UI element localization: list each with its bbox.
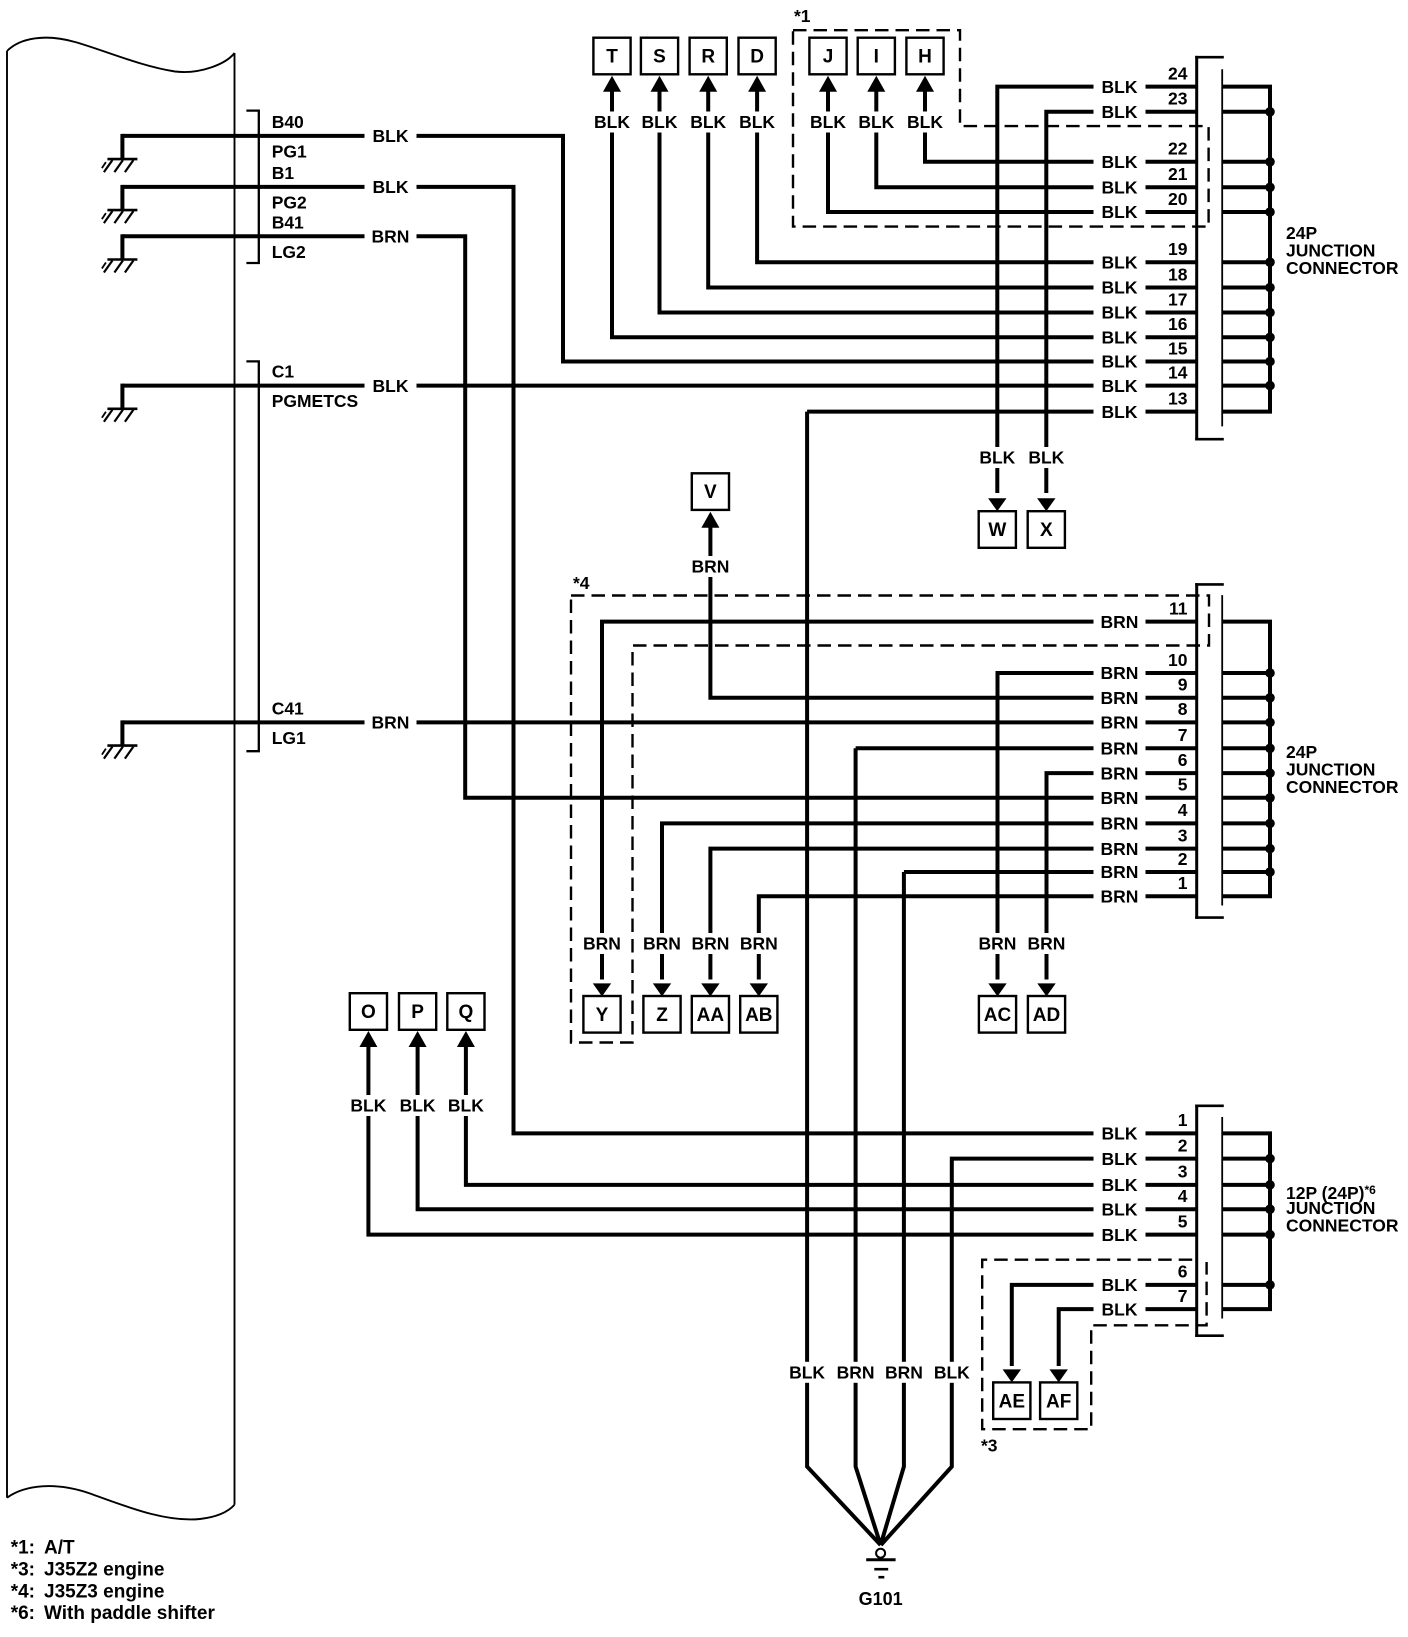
svg-text:BLK: BLK (1102, 376, 1138, 396)
svg-text:BLK: BLK (1102, 77, 1138, 97)
svg-text:23: 23 (1168, 89, 1188, 109)
svg-text:BRN: BRN (372, 713, 410, 733)
svg-text:BLK: BLK (1102, 352, 1138, 372)
wire J BLK to junction (802, 76, 1198, 212)
ground stub C41 (102, 720, 236, 758)
wire H BLK to junction (899, 76, 1198, 162)
svg-text:BLK: BLK (1028, 448, 1064, 468)
wire G101 drop 2 BRN (830, 748, 882, 1545)
svg-text:BRN: BRN (1101, 713, 1139, 733)
ground stub B1 (102, 185, 236, 223)
svg-text:Y: Y (596, 1005, 609, 1026)
svg-text:J35Z2 engine: J35Z2 engine (44, 1560, 164, 1581)
svg-text:BLK: BLK (690, 112, 726, 132)
wire X BLK from pin 23 (1020, 112, 1198, 511)
svg-text:A/T: A/T (44, 1538, 75, 1559)
svg-text:18: 18 (1168, 264, 1188, 284)
svg-text:20: 20 (1168, 189, 1188, 209)
wire R BLK to junction (682, 76, 1198, 288)
connector box S (641, 38, 678, 75)
connector box V (692, 473, 729, 510)
svg-text:LG2: LG2 (272, 242, 306, 262)
svg-text:H: H (918, 47, 932, 68)
dashed option box *4 (J35Z3) (571, 573, 1209, 1043)
svg-text:*4: *4 (573, 573, 590, 593)
svg-text:BLK: BLK (907, 112, 943, 132)
connector box J (809, 38, 846, 75)
svg-text:I: I (874, 47, 879, 68)
svg-text:BLK: BLK (1102, 1175, 1138, 1195)
svg-text:D: D (750, 47, 764, 68)
wire pin7 BRN (856, 746, 1198, 750)
svg-text:BRN: BRN (643, 934, 681, 954)
connector box W (979, 511, 1016, 548)
wire V BRN from pin 9 (684, 512, 1198, 698)
svg-text:14: 14 (1168, 362, 1188, 382)
terminal labels left (272, 112, 359, 748)
dashed option box *1 (A/T) (793, 6, 1209, 227)
wire C41 BRN to pin 8 (236, 720, 1198, 724)
svg-text:BRN: BRN (1028, 934, 1066, 954)
svg-text:*3:: *3: (11, 1560, 35, 1581)
svg-text:BRN: BRN (583, 934, 621, 954)
svg-text:S: S (653, 47, 666, 68)
svg-text:P: P (411, 1002, 424, 1023)
svg-text:*6:: *6: (11, 1603, 35, 1624)
svg-text:4: 4 (1178, 1186, 1188, 1206)
svg-text:BLK: BLK (400, 1096, 436, 1116)
24P junction connector (top) (1168, 56, 1275, 441)
wire P BLK to 12P junction (392, 1031, 1198, 1209)
svg-text:BRN: BRN (1101, 688, 1139, 708)
svg-text:BRN: BRN (1101, 763, 1139, 783)
wire O BLK to 12P junction (342, 1031, 1198, 1235)
svg-text:CONNECTOR: CONNECTOR (1286, 258, 1399, 278)
24P junction connector (middle) (1168, 583, 1275, 919)
svg-text:BRN: BRN (1101, 814, 1139, 834)
connector box AC (979, 996, 1016, 1033)
connector box O (350, 993, 387, 1030)
svg-text:11: 11 (1169, 598, 1188, 618)
svg-text:BLK: BLK (739, 112, 775, 132)
svg-text:BLK: BLK (1102, 1299, 1138, 1319)
ground stub C1 (102, 384, 236, 422)
wire Y BRN from junction (576, 622, 1198, 997)
svg-text:BRN: BRN (1101, 788, 1139, 808)
svg-text:O: O (361, 1002, 376, 1023)
ground G101 (859, 1549, 903, 1609)
wire pin13 BLK (807, 410, 1198, 414)
wire W BLK from pin 24 (971, 87, 1198, 512)
label 24P junction connector top (1286, 223, 1399, 278)
svg-text:X: X (1040, 520, 1053, 541)
svg-text:BRN: BRN (1101, 663, 1139, 683)
svg-text:8: 8 (1178, 699, 1188, 719)
svg-text:BLK: BLK (979, 448, 1015, 468)
connector box AF (1040, 1382, 1077, 1419)
svg-text:BLK: BLK (858, 112, 894, 132)
svg-text:6: 6 (1178, 1262, 1188, 1282)
wire B1 BLK to 12P pin 1 (236, 187, 1198, 1134)
svg-text:With paddle shifter: With paddle shifter (44, 1603, 215, 1624)
wire I BLK to junction (850, 76, 1198, 188)
connector box P (399, 993, 436, 1030)
svg-text:2: 2 (1178, 849, 1188, 869)
svg-text:BLK: BLK (1102, 328, 1138, 348)
dashed option box *3 (J35Z2) (981, 1260, 1207, 1456)
svg-text:LG1: LG1 (272, 728, 306, 748)
svg-text:3: 3 (1178, 825, 1188, 845)
connector box H (906, 38, 943, 75)
svg-text:BLK: BLK (373, 177, 409, 197)
svg-text:9: 9 (1178, 675, 1188, 695)
svg-text:19: 19 (1168, 239, 1188, 259)
svg-text:5: 5 (1178, 775, 1188, 795)
wire colour labels at connectors (365, 76, 1146, 1320)
connector box Q (447, 993, 484, 1030)
svg-text:CONNECTOR: CONNECTOR (1286, 1216, 1399, 1236)
svg-text:BLK: BLK (1102, 1124, 1138, 1144)
wire G101 drop 1 BLK (781, 412, 881, 1545)
svg-text:BRN: BRN (1101, 862, 1139, 882)
wire G101 drop 3 BRN (878, 872, 930, 1545)
svg-text:BRN: BRN (691, 557, 729, 577)
svg-text:W: W (988, 520, 1006, 541)
svg-text:Q: Q (459, 1002, 474, 1023)
svg-text:BLK: BLK (1102, 1275, 1138, 1295)
connector box I (858, 38, 895, 75)
svg-text:BLK: BLK (448, 1096, 484, 1116)
svg-text:AF: AF (1046, 1391, 1071, 1412)
svg-text:BLK: BLK (1102, 152, 1138, 172)
connector box Z (643, 996, 680, 1033)
svg-text:CONNECTOR: CONNECTOR (1286, 777, 1399, 797)
svg-text:1: 1 (1178, 1110, 1188, 1130)
wire G101 drop 4 BLK (881, 1159, 1198, 1545)
wire AA BRN from junction (684, 849, 1198, 997)
svg-text:AD: AD (1033, 1005, 1060, 1026)
svg-text:BRN: BRN (837, 1363, 875, 1383)
svg-text:AA: AA (697, 1005, 725, 1026)
wire AD BRN from junction (1021, 773, 1199, 996)
svg-text:10: 10 (1168, 650, 1188, 670)
svg-text:BRN: BRN (979, 934, 1017, 954)
wire AB BRN from junction (733, 896, 1198, 996)
label 12P junction connector bottom (1286, 1183, 1399, 1236)
svg-text:*1: *1 (794, 6, 811, 26)
svg-text:BLK: BLK (810, 112, 846, 132)
svg-text:BLK: BLK (1102, 1199, 1138, 1219)
svg-text:BLK: BLK (642, 112, 678, 132)
svg-text:21: 21 (1168, 164, 1188, 184)
svg-text:G101: G101 (859, 1589, 903, 1609)
svg-text:BLK: BLK (1102, 102, 1138, 122)
svg-text:C41: C41 (272, 698, 304, 718)
svg-text:J: J (823, 47, 834, 68)
svg-text:BLK: BLK (1102, 303, 1138, 323)
svg-text:24: 24 (1168, 63, 1188, 83)
harness bundle outline (7, 38, 235, 1520)
svg-text:J35Z3 engine: J35Z3 engine (44, 1582, 164, 1603)
svg-text:6: 6 (1178, 750, 1188, 770)
svg-text:22: 22 (1168, 139, 1188, 159)
svg-text:B40: B40 (272, 112, 304, 132)
svg-text:BRN: BRN (885, 1363, 923, 1383)
wire Z BRN from junction (636, 823, 1198, 996)
connector box T (593, 38, 630, 75)
svg-text:PGMETCS: PGMETCS (272, 391, 359, 411)
ground stub B41 (102, 234, 236, 272)
svg-text:7: 7 (1178, 725, 1188, 745)
svg-text:BLK: BLK (1102, 1149, 1138, 1169)
svg-text:BRN: BRN (1101, 612, 1139, 632)
svg-text:BLK: BLK (1102, 178, 1138, 198)
svg-text:BLK: BLK (1102, 278, 1138, 298)
svg-text:BRN: BRN (691, 934, 729, 954)
svg-text:13: 13 (1168, 388, 1188, 408)
footnotes (11, 1538, 216, 1625)
svg-text:16: 16 (1168, 314, 1188, 334)
svg-text:BLK: BLK (934, 1363, 970, 1383)
wire AE BLK from 12P pin 6 (1003, 1285, 1198, 1383)
svg-text:BLK: BLK (1102, 252, 1138, 272)
wire AC BRN from junction (972, 673, 1199, 996)
svg-text:BLK: BLK (1102, 402, 1138, 422)
svg-text:1: 1 (1178, 873, 1188, 893)
svg-text:BRN: BRN (1101, 739, 1139, 759)
svg-text:15: 15 (1168, 338, 1188, 358)
wire AF BLK from 12P pin 7 (1050, 1309, 1199, 1382)
wire T BLK to junction (586, 76, 1198, 338)
svg-text:BLK: BLK (350, 1096, 386, 1116)
wire pin2 BRN (904, 870, 1198, 874)
svg-text:3: 3 (1178, 1162, 1188, 1182)
svg-text:V: V (704, 482, 717, 503)
svg-text:2: 2 (1178, 1135, 1188, 1155)
wire S BLK to junction (634, 76, 1199, 313)
ground stub B40 (102, 134, 236, 172)
svg-text:B1: B1 (272, 163, 295, 183)
connector box R (690, 38, 727, 75)
svg-text:BLK: BLK (1102, 1225, 1138, 1245)
svg-text:17: 17 (1168, 289, 1187, 309)
connector box AE (993, 1382, 1030, 1419)
svg-text:B41: B41 (272, 212, 304, 232)
svg-text:T: T (606, 47, 618, 68)
svg-text:5: 5 (1178, 1211, 1188, 1231)
svg-text:Z: Z (656, 1005, 668, 1026)
svg-text:BLK: BLK (373, 126, 409, 146)
svg-text:BLK: BLK (373, 376, 409, 396)
bracket B40..LG2 (246, 111, 258, 263)
svg-text:PG1: PG1 (272, 141, 307, 161)
svg-text:PG2: PG2 (272, 192, 307, 212)
svg-text:BLK: BLK (594, 112, 630, 132)
svg-text:7: 7 (1178, 1286, 1188, 1306)
svg-text:BRN: BRN (1101, 887, 1139, 907)
svg-text:4: 4 (1178, 800, 1188, 820)
svg-text:BRN: BRN (372, 227, 410, 247)
wire Q BLK to 12P junction (440, 1031, 1198, 1185)
bracket C1..LG1 (246, 361, 258, 751)
connector box Y (583, 996, 620, 1033)
label 24P junction connector middle (1286, 742, 1399, 797)
connector box AA (692, 996, 729, 1033)
svg-text:BLK: BLK (1102, 202, 1138, 222)
wire B41 BRN to pin 5 (236, 236, 1198, 798)
svg-text:*1:: *1: (11, 1538, 35, 1559)
connector box AD (1028, 996, 1065, 1033)
svg-text:R: R (701, 47, 715, 68)
svg-text:AB: AB (745, 1005, 772, 1026)
connector box D (739, 38, 776, 75)
svg-text:BRN: BRN (740, 934, 778, 954)
svg-text:BLK: BLK (789, 1363, 825, 1383)
svg-text:*3: *3 (981, 1436, 998, 1456)
12P junction connector (bottom) (1178, 1105, 1275, 1338)
svg-text:AC: AC (984, 1005, 1012, 1026)
svg-text:BRN: BRN (1101, 839, 1139, 859)
svg-text:AE: AE (999, 1391, 1025, 1412)
connector box X (1028, 511, 1065, 548)
wire D BLK to junction (731, 76, 1198, 262)
wire B40 BLK to pin 15 (236, 136, 1198, 362)
svg-text:C1: C1 (272, 362, 295, 382)
svg-text:*4:: *4: (11, 1582, 35, 1603)
wire C1 BLK to pin 14 (236, 384, 1198, 388)
connector box AB (740, 996, 777, 1033)
